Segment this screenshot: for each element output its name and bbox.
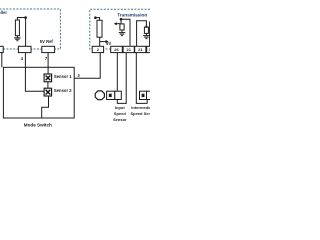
svg-text:Intermediate: Intermediate	[131, 105, 150, 110]
svg-text:21: 21	[138, 47, 143, 52]
svg-text:Speed: Speed	[114, 111, 127, 116]
svg-text:21: 21	[126, 47, 131, 52]
svg-text:26: 26	[114, 47, 119, 52]
svg-text:Mode Switch: Mode Switch	[24, 122, 52, 127]
svg-text:Speed Sensor: Speed Sensor	[131, 111, 151, 116]
svg-text:Sensor: Sensor	[113, 117, 127, 122]
svg-text:Sensor 1: Sensor 1	[54, 74, 72, 79]
svg-text:Transmission: Transmission	[117, 13, 147, 19]
svg-text:3: 3	[149, 47, 150, 52]
svg-text:5V: 5V	[106, 41, 111, 46]
svg-text:5V Ref: 5V Ref	[40, 39, 54, 44]
svg-text:Sensor 2: Sensor 2	[54, 88, 72, 93]
svg-text:Input: Input	[115, 105, 125, 110]
svg-text:Controller: Controller	[0, 10, 7, 15]
